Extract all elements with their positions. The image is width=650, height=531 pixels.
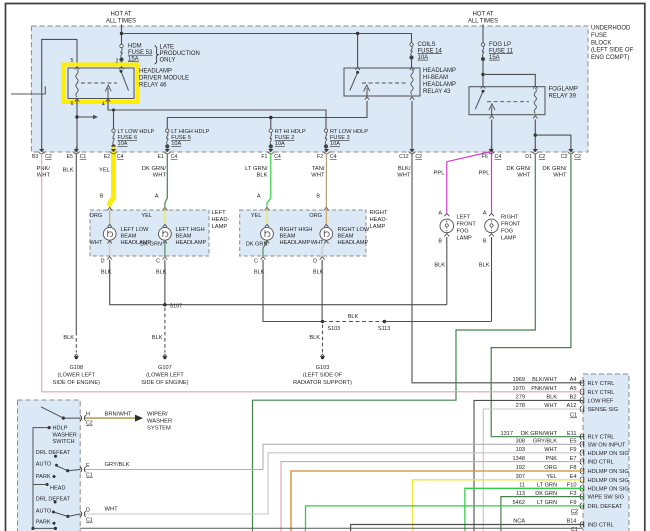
connector E/C1 [80, 467, 85, 473]
svg-text:HEADLAMP: HEADLAMP [280, 240, 311, 246]
svg-text:10A: 10A [275, 141, 285, 147]
relay 43 linkage [362, 82, 406, 84]
svg-text:LAMP: LAMP [212, 224, 228, 230]
node: relay 39 coil tap [481, 73, 484, 76]
svg-text:C2: C2 [571, 509, 578, 515]
highlight around relay 46 [64, 65, 138, 103]
wire BLK left fog ground [446, 237, 448, 305]
svg-text:ALL TIMES: ALL TIMES [106, 19, 136, 25]
svg-text:RIGHT: RIGHT [501, 215, 519, 221]
svg-text:F9: F9 [570, 500, 577, 506]
wire BRN/WHT to wiper/washer [85, 417, 135, 419]
svg-text:LT GRN/: LT GRN/ [245, 166, 268, 172]
ground G107 [164, 308, 166, 353]
wire GRY/BLK to BCM E5 [263, 444, 583, 469]
svg-text:HEADLAMP: HEADLAMP [423, 82, 456, 88]
relay 43 output pin [365, 97, 369, 100]
svg-text:FOGLAMP: FOGLAMP [549, 87, 578, 93]
wire LT GRN to BCM F9 (DRL defeat) [306, 506, 584, 531]
svg-text:BLK: BLK [254, 270, 265, 276]
svg-text:1348: 1348 [513, 456, 525, 462]
svg-text:BLK: BLK [257, 173, 268, 179]
svg-text:RIGHT LOW: RIGHT LOW [338, 227, 370, 233]
wire: drop to fuse 2 [270, 118, 272, 129]
relay 46 pin 4 stub [107, 88, 109, 99]
svg-text:D: D [313, 258, 317, 264]
svg-text:(LEFT SIDE OF: (LEFT SIDE OF [591, 48, 634, 54]
svg-text:E5: E5 [67, 154, 73, 160]
svg-text:FUSE 5: FUSE 5 [171, 135, 191, 141]
fuse RT LOW HDLP FUSE 3 10A [324, 129, 327, 132]
svg-text:BLK: BLK [546, 395, 557, 401]
svg-text:C: C [156, 258, 160, 264]
svg-text:1317: 1317 [501, 431, 513, 437]
headlamp washer switch box [18, 400, 81, 531]
svg-text:WHT: WHT [37, 173, 51, 179]
connector C2/C2 [568, 149, 573, 152]
connector F2/C4 [324, 149, 329, 152]
svg-text:RELAY 39: RELAY 39 [549, 94, 577, 100]
svg-text:C1: C1 [86, 518, 93, 524]
svg-text:FOG: FOG [501, 229, 513, 235]
svg-text:BEAM: BEAM [338, 234, 354, 240]
svg-text:G108: G108 [69, 365, 83, 371]
svg-text:5462: 5462 [513, 500, 525, 506]
svg-text:HEAD: HEAD [50, 486, 66, 492]
node: fuse 2 tap [269, 116, 272, 119]
relay 43 coil pin [410, 97, 414, 100]
svg-text:FRONT: FRONT [501, 222, 521, 228]
svg-text:C2: C2 [561, 154, 568, 160]
svg-text:WHT: WHT [397, 173, 411, 179]
svg-text:IND CTRL: IND CTRL [588, 460, 614, 466]
svg-text:C2: C2 [45, 154, 52, 160]
wire BLK to BCM B2 [474, 400, 583, 531]
svg-text:GRY/BLK: GRY/BLK [105, 462, 130, 468]
svg-text:HEADLAMP: HEADLAMP [423, 68, 456, 74]
svg-text:RIGHT HIGH: RIGHT HIGH [280, 227, 313, 233]
wire BLK ground bus S103 [263, 260, 323, 322]
svg-text:A5: A5 [570, 386, 577, 392]
svg-text:WHT: WHT [105, 507, 119, 513]
svg-text:FUSE 3: FUSE 3 [330, 135, 350, 141]
svg-text:H: H [86, 412, 90, 418]
svg-text:WHT: WHT [544, 403, 557, 409]
svg-text:FRONT: FRONT [457, 222, 477, 228]
svg-text:BLOCK: BLOCK [591, 40, 611, 46]
svg-text:SWITCH: SWITCH [53, 439, 75, 445]
svg-text:WASHER: WASHER [53, 432, 77, 438]
wire to BCM C1 (bottom) [66, 519, 583, 529]
svg-text:HEADLAMP: HEADLAMP [338, 240, 369, 246]
svg-text:WIPE SW SIG: WIPE SW SIG [588, 495, 625, 501]
connector D1/C2 [533, 149, 538, 152]
svg-text:1969: 1969 [513, 377, 525, 383]
svg-text:LEFT LOW: LEFT LOW [121, 227, 150, 233]
svg-text:278: 278 [516, 403, 525, 409]
svg-text:B3: B3 [32, 154, 38, 160]
svg-text:BLK/WHT: BLK/WHT [532, 377, 557, 383]
fuse LT LOW HDLP FUSE 6 10A [112, 129, 115, 132]
svg-text:YEL: YEL [251, 213, 262, 219]
connector H/C2 [80, 415, 85, 421]
svg-text:DK GRN: DK GRN [140, 242, 162, 248]
svg-text:SIDE OF ENGINE): SIDE OF ENGINE) [53, 380, 100, 386]
svg-text:E2: E2 [104, 154, 110, 160]
svg-text:DK GRN/WHT: DK GRN/WHT [521, 431, 558, 437]
splice S103 [321, 320, 324, 323]
svg-text:RLY CTRL: RLY CTRL [588, 390, 615, 396]
svg-text:307: 307 [516, 474, 525, 480]
svg-text:G107: G107 [158, 365, 172, 371]
svg-text:B: B [438, 239, 442, 245]
svg-text:ORG: ORG [90, 213, 103, 219]
svg-text:C2: C2 [574, 154, 581, 160]
svg-text:UNDERHOOD: UNDERHOOD [591, 26, 631, 32]
svg-text:10A: 10A [418, 55, 429, 61]
switch: washer switch contact [41, 407, 63, 418]
svg-text:WHT: WHT [90, 240, 103, 246]
svg-text:LAMP: LAMP [457, 236, 473, 242]
svg-text:A: A [438, 211, 442, 217]
wire: relay 46 pin 6 to E5 connector [76, 99, 78, 151]
svg-text:6: 6 [71, 101, 74, 107]
svg-text:A: A [483, 211, 487, 217]
svg-text:BEAM: BEAM [176, 234, 192, 240]
svg-text:GRY/BLK: GRY/BLK [533, 439, 557, 445]
wire PPL F6 to left fog lamp [447, 152, 491, 213]
node: fuse 6 tap [112, 109, 115, 112]
svg-text:A: A [257, 194, 261, 200]
svg-text:C4: C4 [274, 154, 281, 160]
wire: branch arrow off-page [77, 116, 94, 118]
wire PNK to BCM E7 [281, 462, 583, 531]
svg-text:BLK: BLK [348, 314, 359, 320]
svg-text:PARK: PARK [36, 474, 51, 480]
connector F1/C4 [268, 149, 273, 152]
wire LT GRN to BCM F10 [465, 488, 583, 531]
svg-text:C2: C2 [86, 421, 93, 427]
svg-text:FUSE 2: FUSE 2 [275, 135, 295, 141]
node: relay 43 feed [356, 32, 359, 35]
wire YEL highlighted E2 to left low beam [110, 147, 114, 207]
wire LT GRN/BLK F1 to right high beam [267, 154, 271, 207]
late production only note [155, 46, 159, 65]
connector F6/C4 [489, 149, 494, 152]
svg-text:B14: B14 [567, 519, 577, 525]
svg-text:RT LOW HDLP: RT LOW HDLP [330, 129, 368, 135]
splice S107 [163, 303, 166, 306]
svg-text:YEL: YEL [546, 474, 557, 480]
svg-text:RELAY 43: RELAY 43 [423, 89, 451, 95]
svg-text:A12: A12 [567, 403, 577, 409]
svg-text:PPL: PPL [434, 171, 446, 177]
svg-text:PNK/: PNK/ [36, 166, 50, 172]
svg-text:E5: E5 [570, 439, 577, 445]
relay 46 linkage [81, 82, 117, 84]
svg-text:BLK: BLK [63, 168, 74, 174]
wire: fuse 11 to relay 39 [482, 61, 484, 87]
wire DK GRN/WHT E1 to left high beam [165, 154, 167, 207]
wire WHT to BCM F9 [268, 453, 583, 514]
svg-text:HEADLAMP: HEADLAMP [139, 69, 172, 75]
svg-text:B: B [316, 194, 320, 200]
svg-text:LEFT: LEFT [212, 210, 227, 216]
svg-text:PPL: PPL [479, 171, 491, 177]
wire PNK/WHT B3 to BCM A5 (vertical) [41, 154, 43, 392]
svg-text:BLK: BLK [479, 263, 490, 269]
wire BLK left high beam ground [164, 260, 166, 305]
svg-text:C4: C4 [171, 154, 178, 160]
svg-text:10A: 10A [118, 141, 128, 147]
svg-text:HDM: HDM [128, 44, 142, 50]
svg-text:LT HIGH HDLP: LT HIGH HDLP [171, 129, 209, 135]
wire YEL to BCM E4 [413, 480, 583, 531]
wire DK GRN to BCM F3 [501, 497, 583, 531]
svg-text:DRIVER MODULE: DRIVER MODULE [139, 76, 189, 82]
svg-text:LT GRN: LT GRN [537, 483, 557, 489]
svg-text:10A: 10A [171, 141, 181, 147]
svg-text:RELAY 46: RELAY 46 [139, 83, 167, 89]
svg-text:LT LOW HDLP: LT LOW HDLP [118, 129, 155, 135]
node: F6 splice [490, 149, 493, 152]
svg-text:E: E [86, 463, 90, 469]
svg-text:DRL DEFEAT: DRL DEFEAT [588, 504, 623, 510]
fuse RT HI HDLP FUSE 2 10A [269, 129, 272, 132]
relay: foglamp relay 39 [469, 87, 545, 115]
svg-text:E7: E7 [570, 456, 577, 462]
svg-text:HI-BEAM: HI-BEAM [423, 75, 448, 81]
node: pin 6 branch [75, 115, 78, 118]
svg-text:D: D [101, 258, 105, 264]
relay: headlamp hi-beam headlamp relay 43 [344, 68, 420, 96]
svg-text:DK GRN/: DK GRN/ [142, 166, 167, 172]
svg-text:HEAD-: HEAD- [212, 217, 230, 223]
switch common rail [48, 426, 51, 429]
svg-text:1970: 1970 [513, 386, 525, 392]
wire ORG to BCM F8 [291, 471, 583, 531]
wire: hot bus to relay 43 and coils fuse [122, 34, 412, 43]
wire WHT from switch [85, 513, 268, 515]
svg-text:F2: F2 [317, 154, 323, 160]
wire: relay 39 coil to D1 connector [534, 120, 536, 151]
wire: relay 46 pin 4 low-beam bus [108, 99, 326, 129]
svg-text:(LOWER LEFT: (LOWER LEFT [57, 373, 95, 379]
wire: off-page stub [11, 86, 45, 94]
wire: relay 39 output to F6 connector [491, 120, 493, 151]
wire: drop to fuse 6 [113, 110, 115, 129]
wire DK GRN/WHT D1 (staircase down) [253, 154, 536, 531]
svg-text:10A: 10A [330, 141, 340, 147]
svg-text:WASHER: WASHER [147, 419, 172, 425]
svg-text:ENG COMPT): ENG COMPT) [591, 55, 629, 61]
svg-text:BEAM: BEAM [280, 234, 296, 240]
svg-text:FUSE 14: FUSE 14 [418, 48, 443, 54]
wire: relay 43 high-beam bus [167, 101, 367, 129]
svg-text:113: 113 [516, 491, 525, 497]
wire: feed to HDM fuse [121, 25, 123, 45]
wire GRY/BLK from switch [85, 469, 263, 471]
svg-text:PARK: PARK [36, 520, 51, 526]
svg-text:WHT: WHT [153, 173, 167, 179]
svg-text:DK GRN/: DK GRN/ [506, 166, 531, 172]
svg-text:HDLMP ON SIG: HDLMP ON SIG [588, 486, 629, 492]
svg-text:BLK: BLK [313, 270, 324, 276]
svg-text:5: 5 [71, 58, 74, 64]
svg-text:PNK/WHT: PNK/WHT [531, 386, 557, 392]
svg-text:WHT: WHT [311, 173, 325, 179]
svg-text:BLK: BLK [309, 335, 320, 341]
ground G103 [322, 325, 324, 353]
svg-text:SENSE SIG: SENSE SIG [588, 407, 619, 413]
svg-text:FUSE 11: FUSE 11 [489, 48, 514, 54]
svg-text:AUTO: AUTO [36, 509, 52, 515]
svg-text:HDLMP ON SIG: HDLMP ON SIG [588, 451, 629, 457]
connector E1/C4 [165, 149, 170, 152]
wire BLK right low beam ground [321, 260, 323, 322]
svg-text:DRL DEFEAT: DRL DEFEAT [36, 450, 71, 456]
svg-text:RLY CTRL: RLY CTRL [588, 381, 615, 387]
svg-text:C4: C4 [117, 154, 124, 160]
connector C12/C2 [409, 149, 414, 152]
svg-text:C2: C2 [539, 154, 546, 160]
wire: B3 connector to relay 46 pin 5 [42, 39, 77, 150]
svg-text:F9: F9 [570, 447, 577, 453]
svg-text:C12: C12 [399, 154, 409, 160]
svg-text:WHT: WHT [311, 240, 324, 246]
wire: branch to C2 connector [535, 135, 571, 150]
svg-text:ORG: ORG [309, 213, 322, 219]
svg-text:15A: 15A [489, 55, 500, 61]
svg-text:F3: F3 [570, 491, 577, 497]
wire: tap to relay 39 coil [483, 74, 535, 86]
relay 46 switch [120, 70, 123, 73]
svg-text:C: C [254, 258, 258, 264]
svg-text:DRL DEFEAT: DRL DEFEAT [36, 497, 71, 503]
svg-text:D1: D1 [525, 154, 532, 160]
fuse FOG LP FUSE 11 15A [481, 43, 484, 46]
connector E5/C1 [74, 149, 79, 152]
svg-text:15A: 15A [128, 56, 139, 62]
svg-text:FUSE 6: FUSE 6 [118, 135, 138, 141]
svg-text:BLK: BLK [152, 335, 163, 341]
connector D/C1 [80, 511, 85, 517]
relay 39 coil pin [533, 116, 537, 119]
svg-text:C4: C4 [495, 154, 502, 160]
svg-text:(LOWER LEFT: (LOWER LEFT [146, 373, 184, 379]
svg-text:C1: C1 [80, 154, 87, 160]
splice S113 [383, 320, 386, 323]
connector E2/C4 [111, 149, 116, 152]
right headlamp box [240, 210, 366, 256]
svg-text:LT GRN: LT GRN [537, 500, 557, 506]
wire: fuse 53 to relay 46 pin 2 [121, 61, 123, 68]
svg-text:BLK: BLK [101, 270, 112, 276]
svg-text:WHT: WHT [544, 447, 557, 453]
svg-text:4: 4 [102, 101, 105, 107]
svg-text:LOW REF: LOW REF [588, 398, 614, 404]
svg-text:HDLMP ON SIG: HDLMP ON SIG [588, 469, 629, 475]
svg-text:FUSE 53: FUSE 53 [128, 50, 153, 56]
svg-text:RLY CTRL: RLY CTRL [588, 435, 615, 441]
svg-text:WHT: WHT [517, 173, 531, 179]
node: bus branch [120, 32, 123, 35]
wire: feed to fog fuse [482, 25, 484, 43]
svg-text:F1: F1 [261, 154, 267, 160]
relay 43 output stub [366, 88, 368, 98]
svg-text:LAMP: LAMP [501, 236, 517, 242]
wire: fuse 14 to relay 43 coil [411, 59, 413, 68]
svg-text:BLK: BLK [434, 263, 445, 269]
wire: feed to relay 43 common [357, 34, 359, 69]
svg-text:DK GRN/: DK GRN/ [542, 166, 567, 172]
relay: headlamp driver module relay 46 [68, 68, 134, 99]
svg-text:2: 2 [116, 59, 119, 65]
svg-text:SW ON INPUT: SW ON INPUT [588, 442, 626, 448]
svg-text:PRODUCTION: PRODUCTION [160, 51, 200, 57]
svg-text:C1: C1 [570, 413, 577, 419]
svg-text:YEL: YEL [141, 213, 152, 219]
svg-text:F6: F6 [482, 154, 488, 160]
svg-text:BRN/WHT: BRN/WHT [105, 412, 133, 418]
svg-text:SIDE OF ENGINE): SIDE OF ENGINE) [141, 380, 188, 386]
wire BLK S113 to right fog [385, 321, 492, 323]
svg-text:HOT AT: HOT AT [110, 12, 131, 18]
svg-text:C4: C4 [330, 154, 337, 160]
underhood fuse block [31, 26, 588, 152]
svg-text:B: B [100, 194, 104, 200]
ground G108 [75, 332, 77, 353]
svg-text:E11: E11 [567, 431, 577, 437]
svg-text:HOT AT: HOT AT [472, 12, 493, 18]
wire: relay 43 coil to C12 connector [411, 101, 413, 150]
svg-text:FUSE: FUSE [591, 33, 607, 39]
svg-text:C1: C1 [571, 527, 578, 531]
svg-text:308: 308 [516, 439, 525, 445]
svg-text:HEAD-: HEAD- [370, 217, 388, 223]
svg-text:TAN/: TAN/ [312, 166, 325, 172]
svg-text:FOG LP: FOG LP [489, 42, 511, 48]
wire BLK right fog ground [491, 237, 493, 322]
svg-text:A4: A4 [570, 377, 577, 383]
svg-text:WHT: WHT [553, 173, 567, 179]
svg-text:279: 279 [516, 395, 525, 401]
wire DK GRN/WHT C2 to BCM E11 [491, 154, 583, 437]
svg-text:S107: S107 [170, 304, 183, 310]
svg-text:ONLY: ONLY [160, 58, 176, 64]
relay 39 output stub [491, 107, 493, 117]
connector B3/C2 [39, 149, 44, 152]
wire BLK/WHT C12 to BCM A4 [412, 154, 583, 383]
svg-text:C1: C1 [86, 473, 93, 479]
svg-text:PNK: PNK [545, 456, 557, 462]
svg-text:AUTO: AUTO [36, 462, 52, 468]
svg-text:G103: G103 [316, 365, 330, 371]
svg-text:BLK: BLK [63, 335, 74, 341]
svg-text:F10: F10 [567, 483, 577, 489]
svg-text:RT HI HDLP: RT HI HDLP [275, 129, 306, 135]
svg-text:BLK/: BLK/ [398, 166, 411, 172]
svg-text:D: D [86, 508, 90, 514]
svg-text:LEFT HIGH: LEFT HIGH [176, 227, 205, 233]
svg-text:RADIATOR SUPPORT): RADIATOR SUPPORT) [293, 380, 352, 386]
svg-text:IND CTRL: IND CTRL [588, 523, 614, 529]
svg-text:LEFT: LEFT [457, 215, 471, 221]
svg-text:LATE: LATE [160, 45, 175, 51]
svg-text:ALL TIMES: ALL TIMES [468, 19, 498, 25]
svg-text:HDLMP ON SIG: HDLMP ON SIG [588, 478, 629, 484]
svg-text:C2: C2 [415, 154, 422, 160]
